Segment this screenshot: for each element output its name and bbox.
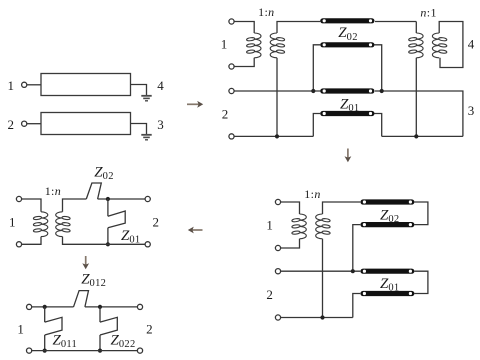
wire TL-A right lead <box>131 85 147 96</box>
wire TR Z02 lower left drop <box>313 45 320 91</box>
wire TR port4 loop <box>439 22 463 68</box>
svg-text:Z02: Z02 <box>338 25 357 43</box>
junction TR mid-right <box>380 89 384 93</box>
stub Z02 symbol <box>86 183 101 199</box>
junction ML top node <box>106 197 110 201</box>
transmission line BR Z01 upper <box>360 269 414 274</box>
junction BR mid <box>351 269 355 273</box>
port terminal TR-P1b <box>229 64 234 69</box>
wire ML port1 bottom lead <box>22 237 41 245</box>
wire BR Z01 lower left drop <box>353 294 360 318</box>
svg-text:2: 2 <box>146 321 153 336</box>
wire BR Z02 u-link right <box>414 202 428 225</box>
inductor winding ML T1 secondary <box>56 212 71 237</box>
junction BL top-left node <box>43 305 47 309</box>
wire ML shunt vertical lower <box>107 228 109 245</box>
wire TR port1 top lead <box>234 22 254 34</box>
port terminal BL-P2b <box>137 348 142 353</box>
svg-text:n:1: n:1 <box>420 5 436 19</box>
svg-text:Z01: Z01 <box>380 276 399 294</box>
wire TR Z01 lower left drop <box>313 114 320 137</box>
transmission line BR Z01 lower <box>360 291 414 296</box>
port terminal BL-P1a <box>27 304 32 309</box>
wire TR T1 sec top lead <box>277 22 320 34</box>
arrow down right <box>345 149 352 163</box>
wire BL top wire right <box>85 306 137 308</box>
junction BL bottom-right node <box>98 349 102 353</box>
transmission line TR Z01 upper <box>320 88 374 93</box>
wire TR top wire to T2 <box>375 21 416 23</box>
wire BR port1 bottom lead <box>281 239 300 248</box>
port terminal ML-P1b <box>16 242 21 247</box>
svg-text:1: 1 <box>8 78 15 93</box>
arrow right <box>187 101 203 108</box>
svg-text:1: 1 <box>17 321 24 336</box>
transmission line box TL-B <box>41 113 131 135</box>
transmission line box TL-A <box>41 74 131 96</box>
junction BL bottom-left node <box>43 349 47 353</box>
inductor winding BR T1 primary <box>292 214 307 239</box>
wire BR port1 top lead <box>281 202 300 214</box>
wire BL right shunt upper <box>99 307 101 322</box>
transmission line BR Z02 upper <box>360 199 414 204</box>
wire BL bottom wire <box>32 350 138 352</box>
transmission line TR Z01 lower <box>320 111 374 116</box>
svg-text:2: 2 <box>266 287 273 302</box>
wire TR port1 bottom lead <box>234 58 254 67</box>
wire BR middle wire <box>281 270 361 272</box>
ground TL-A <box>141 96 151 101</box>
port terminal ML-P1a <box>16 196 21 201</box>
wire TR T2 pri bottom vertical <box>415 58 417 137</box>
svg-text:1:n: 1:n <box>45 184 61 198</box>
wire ML shunt vertical upper <box>107 199 109 216</box>
svg-text:Z01: Z01 <box>121 228 140 246</box>
svg-text:2: 2 <box>152 214 159 229</box>
wire TR middle wire right + right edge <box>375 91 463 136</box>
port terminal BR-P1a <box>275 199 280 204</box>
port terminal TR-P2b <box>229 134 234 139</box>
inductor winding TR T1 primary <box>246 33 261 58</box>
wire ML T1 sec top lead <box>63 199 87 212</box>
wire BR Z01 u-link right <box>414 271 428 293</box>
svg-text:1: 1 <box>266 218 273 233</box>
wire BR Z02 lower left drop <box>353 225 360 272</box>
svg-text:4: 4 <box>157 78 164 93</box>
port terminal BR-P2b <box>275 315 280 320</box>
wire TR T2 pri top stub <box>415 22 417 34</box>
svg-text:1:n: 1:n <box>304 187 320 201</box>
svg-text:Z012: Z012 <box>81 272 106 290</box>
svg-text:4: 4 <box>468 36 475 51</box>
svg-text:3: 3 <box>468 103 475 118</box>
ground TL-B <box>141 135 151 140</box>
arrow left <box>188 227 203 234</box>
svg-text:2: 2 <box>8 117 15 132</box>
port terminal BR-P2a <box>275 269 280 274</box>
stub Z012 symbol <box>74 291 89 307</box>
junction TR mid-left <box>311 89 315 93</box>
wire TL port1 lead <box>27 84 41 86</box>
wire BR bottom wire <box>281 317 353 319</box>
port terminal BL-P2a <box>137 304 142 309</box>
wire ML top wire right <box>98 198 146 200</box>
junction BR bottom T1 <box>320 315 324 319</box>
wire BL top wire left <box>32 306 74 308</box>
transmission line TR Z02 upper <box>320 18 374 23</box>
wire ML port1 top lead <box>22 199 41 212</box>
port terminal TL-P1 <box>22 82 27 87</box>
svg-text:1:n: 1:n <box>258 5 274 19</box>
wire BL left shunt lower <box>44 335 46 351</box>
junction ML bottom node <box>106 242 110 246</box>
transmission line TR Z02 lower <box>320 42 374 47</box>
transmission line BR Z02 lower <box>360 222 414 227</box>
stub Z011 symbol <box>45 317 62 335</box>
wire TR bottom wire right <box>382 135 463 137</box>
svg-text:1: 1 <box>221 37 228 52</box>
wire TR Z01 lower right drop <box>375 114 382 137</box>
port terminal BR-P1b <box>275 245 280 250</box>
svg-text:Z02: Z02 <box>94 164 113 182</box>
port terminal ML-P2b <box>145 242 150 247</box>
port terminal TR-P2a <box>229 88 234 93</box>
inductor winding TR T2 secondary <box>432 33 447 58</box>
wire TR middle wire left <box>234 90 320 92</box>
junction BL top-right node <box>98 305 102 309</box>
svg-text:3: 3 <box>157 117 164 132</box>
wire BR T1 sec top lead <box>323 202 361 214</box>
junction TR bottom T2 <box>414 134 418 138</box>
inductor winding TR T2 primary <box>408 33 423 58</box>
wire TL-B right lead <box>131 124 147 135</box>
port terminal BL-P1b <box>27 348 32 353</box>
wire TL port2 lead <box>27 123 41 125</box>
wire TR T1 sec bottom vertical <box>276 58 278 137</box>
wire TR bottom wire left <box>234 135 313 137</box>
junction TR bottom T1 <box>275 134 279 138</box>
inductor winding TR T1 secondary <box>270 33 285 58</box>
arrow down left <box>82 256 89 269</box>
svg-text:Z011: Z011 <box>53 333 78 351</box>
wire BL right shunt lower <box>99 335 101 351</box>
port terminal TL-P2 <box>22 121 27 126</box>
svg-text:Z022: Z022 <box>111 333 136 351</box>
stub Z022 symbol <box>100 317 117 335</box>
stub Z01 symbol <box>108 211 125 228</box>
svg-text:2: 2 <box>222 106 229 121</box>
inductor winding ML T1 primary <box>33 212 48 237</box>
wire TR Z02 lower right drop <box>375 45 382 91</box>
svg-text:1: 1 <box>9 214 16 229</box>
port terminal ML-P2a <box>145 196 150 201</box>
wire ML bottom wire <box>63 237 146 245</box>
port terminal TR-P1a <box>229 19 234 24</box>
inductor winding BR T1 secondary <box>316 214 331 239</box>
svg-text:Z02: Z02 <box>380 207 399 225</box>
wire BL left shunt upper <box>44 307 46 322</box>
wire BR T1 sec bottom vertical <box>322 239 324 318</box>
